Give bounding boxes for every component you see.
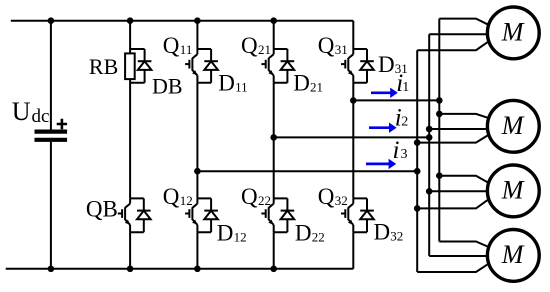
svg-text:i: i — [393, 137, 400, 164]
svg-text:11: 11 — [180, 42, 193, 57]
svg-text:RB: RB — [89, 54, 118, 79]
svg-text:D: D — [218, 70, 235, 95]
svg-text:dc: dc — [32, 106, 50, 127]
svg-text:Q: Q — [241, 184, 258, 209]
svg-text:21: 21 — [310, 80, 323, 95]
svg-text:QB: QB — [86, 197, 118, 222]
svg-text:D: D — [374, 220, 391, 245]
svg-text:DB: DB — [152, 74, 183, 99]
svg-text:22: 22 — [312, 230, 325, 245]
svg-text:D: D — [293, 70, 310, 95]
svg-text:1: 1 — [402, 80, 409, 95]
svg-text:31: 31 — [335, 42, 348, 57]
svg-text:32: 32 — [335, 193, 348, 208]
svg-text:2: 2 — [401, 115, 408, 130]
svg-text:D: D — [217, 221, 234, 246]
svg-text:D: D — [378, 52, 395, 77]
svg-text:Q: Q — [163, 33, 180, 58]
svg-text:U: U — [12, 97, 31, 126]
svg-text:Q: Q — [241, 33, 258, 58]
svg-text:Q: Q — [163, 184, 180, 209]
svg-text:21: 21 — [258, 42, 271, 57]
svg-text:22: 22 — [258, 193, 271, 208]
svg-text:Q: Q — [318, 33, 335, 58]
svg-text:11: 11 — [235, 80, 248, 95]
svg-text:D: D — [295, 221, 312, 246]
svg-text:32: 32 — [390, 229, 403, 244]
svg-text:12: 12 — [180, 193, 193, 208]
svg-text:12: 12 — [234, 230, 247, 245]
svg-text:Q: Q — [318, 184, 335, 209]
svg-text:3: 3 — [401, 147, 408, 162]
